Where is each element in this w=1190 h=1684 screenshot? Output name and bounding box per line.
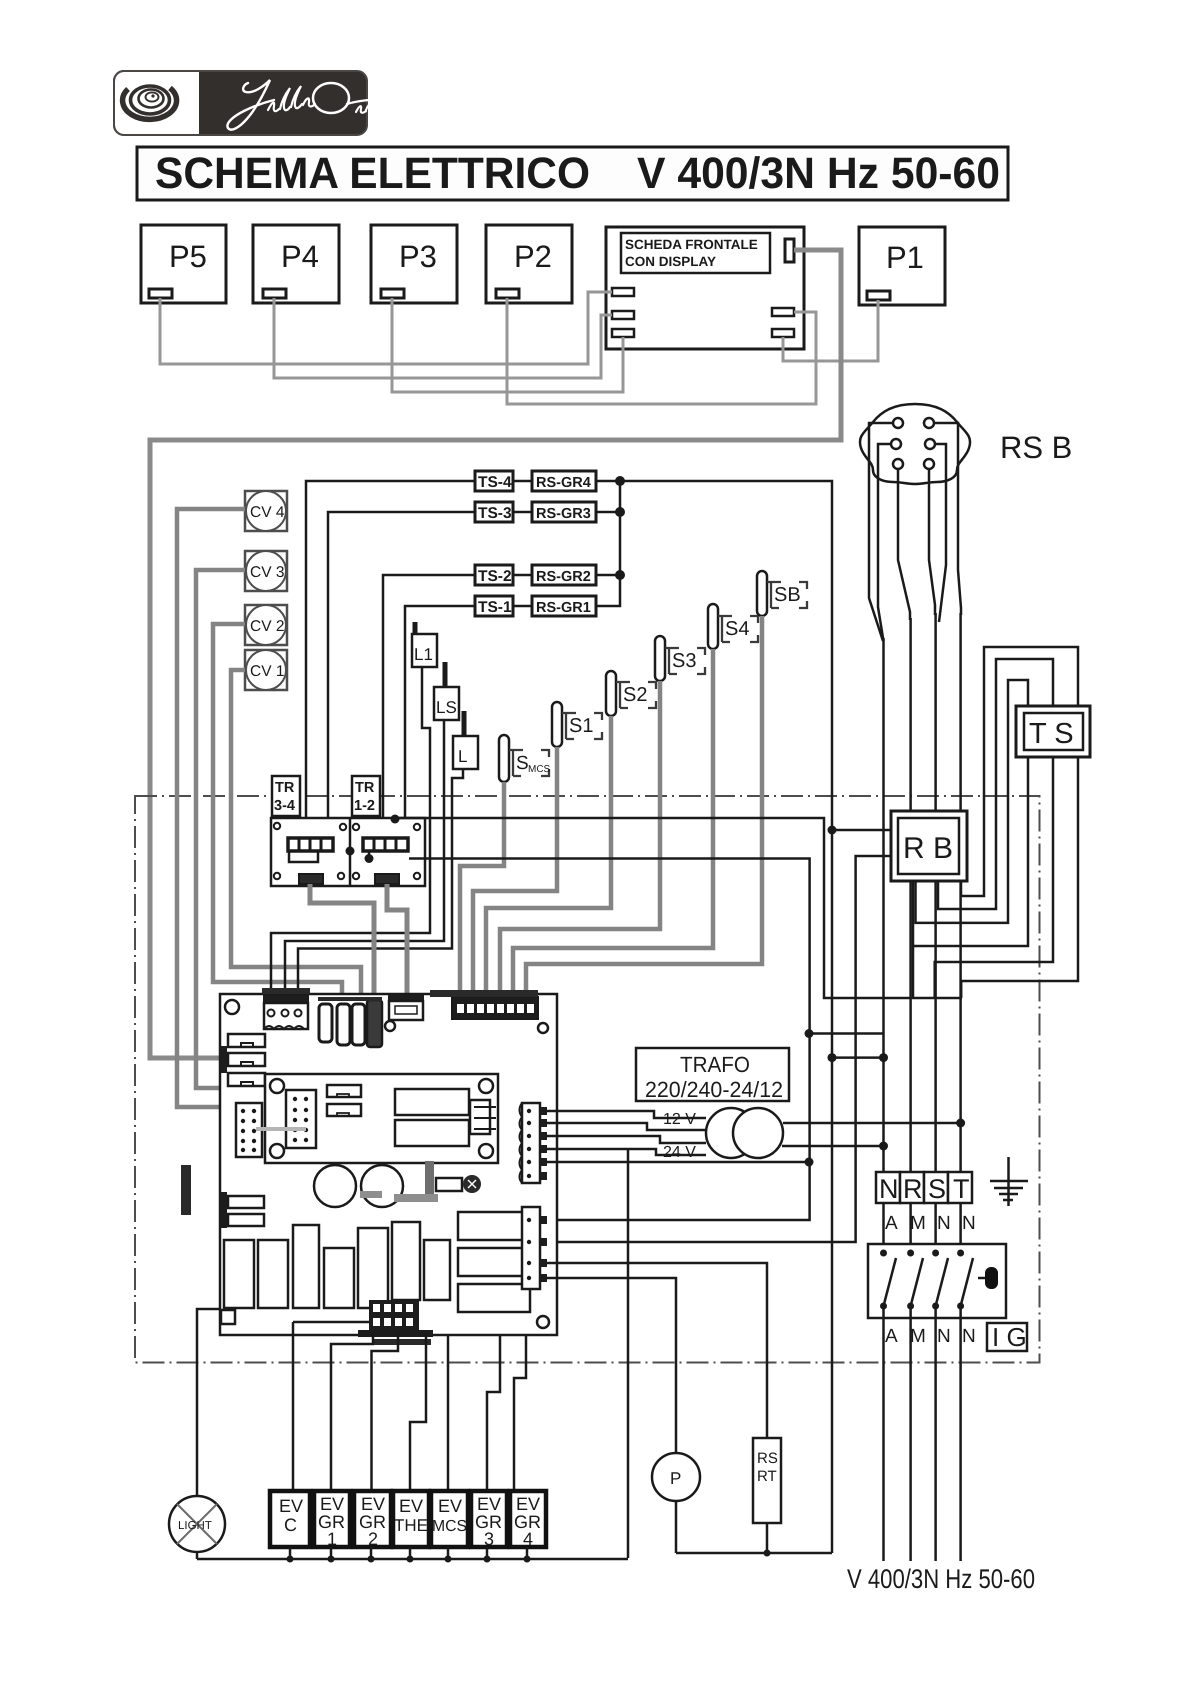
svg-text:24 V: 24 V	[663, 1144, 696, 1161]
thermostat TS-3	[475, 502, 513, 522]
wire RS RT to bus	[766, 1523, 769, 1553]
wire TS-3 left to relay board	[328, 512, 475, 839]
relay board divider	[349, 818, 352, 886]
module pin header	[286, 1090, 316, 1148]
board aux wire to right column	[545, 1161, 809, 1164]
wire EV C drop	[292, 1322, 295, 1491]
svg-text:RS-GR3: RS-GR3	[536, 506, 591, 522]
svg-text:3: 3	[484, 1529, 494, 1549]
connector EXP labeled	[388, 995, 424, 1020]
transformer TRAFO symbol	[706, 1108, 756, 1158]
svg-text:A: A	[885, 1213, 898, 1234]
wire LS to board connector	[285, 720, 444, 1006]
svg-text:TRAFO: TRAFO	[680, 1052, 750, 1077]
svg-text:T S: T S	[1029, 718, 1074, 750]
module relays	[395, 1089, 469, 1115]
wire RS RT from board	[545, 1263, 767, 1438]
wire S3 to board	[500, 681, 660, 999]
wire TS-2 left to relay board	[383, 575, 475, 839]
svg-text:EV: EV	[516, 1494, 540, 1514]
node TS bus junction 3	[615, 570, 625, 580]
main switch IG box	[868, 1244, 1006, 1318]
svg-text:TR: TR	[275, 780, 295, 796]
label box I G	[987, 1322, 1027, 1352]
relay TR1-2 output tab	[375, 874, 399, 884]
title box SCHEMA ELETTRICO	[137, 147, 1008, 200]
wire TS-2 to RS-GR2	[513, 574, 532, 577]
terminal block R	[900, 1172, 924, 1204]
svg-text:V 400/3N Hz 50-60: V 400/3N Hz 50-60	[637, 149, 1000, 198]
heater resistor RS-GR1	[532, 596, 596, 616]
switch S4	[708, 604, 758, 649]
connector right edge upper	[520, 1103, 548, 1183]
volumetric counter CV 2	[245, 605, 287, 645]
wire RB left pin to TS bus	[832, 829, 891, 832]
header EV bottom	[358, 1300, 433, 1337]
EV common bus	[197, 1558, 628, 1561]
svg-text:R: R	[903, 1174, 923, 1204]
IG actuator blob	[985, 1267, 998, 1289]
display board connector top-right	[785, 239, 794, 262]
pushbutton P1	[859, 227, 945, 305]
svg-text:CV 4: CV 4	[250, 504, 285, 521]
svg-text:MCS: MCS	[528, 764, 551, 775]
svg-text:CV 3: CV 3	[250, 564, 284, 581]
safety thermostat box T S	[1016, 706, 1090, 757]
svg-text:N: N	[962, 1326, 976, 1347]
svg-text:EV: EV	[477, 1494, 501, 1514]
bus wire relay to board row1	[409, 859, 810, 1221]
svg-text:EV: EV	[279, 1496, 303, 1516]
pump P	[652, 1453, 700, 1501]
switch output wires	[884, 1306, 961, 1561]
heater resistor RS RT	[753, 1438, 781, 1523]
wire TS-3 to RS-GR3	[513, 511, 532, 514]
connector slot 3	[352, 1004, 365, 1045]
transformer primary wire 24V a	[545, 1136, 706, 1143]
svg-text:P3: P3	[399, 239, 437, 274]
EV common bus riser	[627, 1149, 630, 1558]
label box TRAFO	[636, 1048, 789, 1102]
svg-text:M: M	[910, 1213, 926, 1234]
connector slot 4 dark	[367, 1000, 382, 1047]
wire EV GR3 from board	[487, 1335, 500, 1491]
pump RS-RT bottom bus	[676, 1552, 832, 1555]
group thermostat bus vertical	[597, 481, 620, 606]
connector RS B body	[860, 404, 970, 484]
label TR 3-4	[272, 776, 300, 816]
main control board outline	[220, 994, 557, 1335]
IG switch pole 4	[957, 1250, 973, 1310]
svg-text:220/240-24/12: 220/240-24/12	[645, 1077, 783, 1102]
wire P2 to display board	[507, 298, 816, 404]
svg-text:THE: THE	[394, 1516, 428, 1535]
logo Dalla Corte	[114, 71, 411, 135]
connector WR-GR 3pin	[263, 995, 309, 1029]
logo script DallaCorte	[227, 80, 411, 130]
wire SB to board	[526, 616, 762, 999]
link wire column N to board column	[809, 1032, 884, 1035]
wire TS bus to RB column	[620, 481, 832, 1553]
node link right	[879, 1053, 888, 1062]
svg-text:N: N	[937, 1326, 951, 1347]
volumetric counter CV 1	[245, 650, 287, 690]
display board connector right row1	[772, 308, 794, 316]
level regulator box R B	[891, 811, 967, 881]
node TS bus junction 1	[615, 476, 625, 486]
wire RS B pin BL	[898, 464, 910, 620]
wire EV GR4 from board	[514, 1335, 526, 1491]
wire light from board	[197, 1309, 221, 1496]
secondary 12V wire to column T	[783, 1122, 961, 1125]
terminal block S	[924, 1172, 948, 1204]
volumetric counter CV 4	[245, 491, 287, 531]
header JP left	[236, 1103, 262, 1157]
link wire TS bus to column N	[832, 1056, 884, 1059]
pushbutton P4	[253, 225, 339, 303]
svg-text:LIGHT: LIGHT	[178, 1520, 212, 1532]
wire P3 to display board	[392, 298, 623, 392]
pushbutton P2	[486, 225, 572, 303]
wire RS B pin ML	[878, 444, 896, 641]
transformer primary wire 12V b	[545, 1123, 706, 1130]
svg-text:4: 4	[523, 1529, 533, 1549]
level probe L1	[412, 622, 437, 667]
svg-text:EV: EV	[320, 1494, 344, 1514]
wire RS-GR2 to bus	[597, 574, 620, 577]
wire light to common bus	[196, 1552, 199, 1559]
connector slot 1	[319, 1004, 332, 1042]
svg-text:SB: SB	[774, 584, 801, 606]
display board connector left row3	[612, 329, 634, 337]
svg-text:RS-GR2: RS-GR2	[536, 569, 591, 585]
wire P4 to display board	[274, 298, 612, 378]
wire RB lower pin down to board row2	[545, 856, 891, 1242]
svg-text:S1: S1	[569, 715, 593, 737]
node relay tap on 858 bus	[365, 854, 374, 863]
svg-text:N: N	[879, 1174, 899, 1204]
wire pump to bottom bus	[675, 1501, 678, 1553]
svg-text:S4: S4	[725, 618, 749, 640]
wire CV2 to board connector	[213, 624, 342, 1006]
stub relay to bus 858	[368, 851, 371, 859]
display board SCHEDA FRONTALE CON DISPLAY	[606, 227, 804, 349]
heater resistor RS-GR2	[532, 565, 596, 585]
phase bus wire from relay to right column	[395, 818, 962, 998]
wire S4 to board	[513, 649, 713, 999]
svg-text:1: 1	[327, 1529, 337, 1549]
wire TS-1 left to relay board	[405, 606, 475, 839]
logo spiral mark	[123, 86, 177, 119]
wire TS-4 left to relay board	[306, 481, 475, 839]
valve EV GR 4	[510, 1491, 546, 1549]
svg-text:TS-3: TS-3	[478, 505, 512, 522]
svg-text:CV 2: CV 2	[250, 618, 284, 635]
wire S1 to board	[473, 747, 557, 999]
svg-text:EV: EV	[399, 1496, 423, 1516]
wire RB to TS loop outer	[961, 647, 1078, 998]
node TS bus junction 2	[615, 507, 625, 517]
svg-text:S: S	[928, 1174, 946, 1204]
relay TR1-2 terminal bar	[363, 838, 408, 851]
svg-text:SCHEMA ELETTRICO: SCHEMA ELETTRICO	[155, 149, 590, 198]
supply column N from RS B	[882, 638, 885, 1172]
svg-text:CV 1: CV 1	[250, 663, 284, 680]
wire P1 to display board	[783, 300, 878, 361]
svg-text:LS: LS	[436, 698, 457, 717]
svg-text:P2: P2	[514, 239, 552, 274]
relay bank right	[458, 1212, 530, 1312]
light pickup connector on left edge	[221, 1310, 235, 1324]
heater resistor RS-GR4	[532, 471, 596, 491]
svg-text:RS B: RS B	[1000, 430, 1072, 465]
svg-text:I G: I G	[992, 1322, 1027, 1352]
node link on board column	[805, 1029, 814, 1038]
small parts left	[228, 1196, 264, 1226]
transformer primary wire 24V b	[545, 1149, 706, 1155]
wire RB to TS loop middle	[935, 659, 1053, 998]
wire module link gray	[256, 1127, 306, 1131]
machine chassis dash-dot boundary	[135, 796, 1040, 1363]
label strip outside board	[181, 1165, 191, 1215]
svg-text:S3: S3	[672, 650, 696, 672]
label TR 1-2	[352, 776, 380, 816]
svg-text:N: N	[962, 1213, 976, 1234]
valve EV GR 1	[314, 1491, 350, 1549]
svg-text:CON DISPLAY: CON DISPLAY	[625, 254, 716, 269]
wire EV THE from header	[410, 1333, 426, 1491]
terminal to switch wires	[884, 1203, 961, 1253]
svg-text:RS-GR4: RS-GR4	[536, 475, 591, 491]
svg-text:2: 2	[368, 1529, 378, 1549]
node relay divider tap	[346, 847, 355, 856]
wire RS B pin TR	[929, 423, 961, 615]
svg-text:L1: L1	[414, 645, 433, 664]
display board connector right row2	[772, 329, 794, 337]
volumetric counter CV 3	[245, 551, 287, 591]
capacitor circle 2	[361, 1165, 403, 1207]
svg-text:R B: R B	[903, 832, 953, 865]
svg-text:EV: EV	[361, 1494, 385, 1514]
pushbutton P5	[141, 225, 226, 303]
wire pump P from board	[545, 1278, 676, 1453]
wire EV C from header	[331, 1333, 373, 1491]
svg-text:N: N	[937, 1213, 951, 1234]
wire TS-4 to RS-GR4	[513, 480, 532, 483]
wire TS box bottom leg	[913, 757, 1028, 946]
valve EV THE	[393, 1491, 429, 1547]
wire RS B pin MR	[930, 444, 946, 622]
node link left	[828, 1053, 837, 1062]
power device TO220	[425, 1161, 481, 1197]
svg-text:RS-GR1: RS-GR1	[536, 600, 591, 616]
terminal block T	[948, 1172, 972, 1204]
svg-text:TR: TR	[355, 780, 375, 796]
microswitch S MCS	[499, 735, 551, 782]
RS B pin wires down	[869, 423, 961, 641]
node relay phase tap	[391, 815, 400, 824]
node 12V on column T	[956, 1119, 965, 1128]
module side connector	[470, 1100, 490, 1134]
svg-text:TS-4: TS-4	[478, 474, 512, 491]
IG switch pole 2	[907, 1250, 923, 1310]
svg-text:3-4: 3-4	[274, 798, 295, 814]
thermostat TS-2	[475, 565, 513, 585]
svg-text:EV: EV	[438, 1496, 462, 1516]
wire TS-1 to RS-GR1	[513, 605, 532, 608]
terminal block N	[876, 1172, 900, 1204]
switch S2	[606, 671, 656, 716]
wire RS B pin TL	[869, 423, 898, 641]
connector left edge row2	[228, 1053, 265, 1066]
IG switch pole 3	[932, 1250, 948, 1310]
svg-text:TS-2: TS-2	[478, 568, 512, 585]
svg-text:M: M	[910, 1326, 926, 1347]
transformer primary wire 12V a	[545, 1111, 706, 1118]
node RB tap on TS bus	[828, 826, 837, 835]
wire S MCS to board	[460, 782, 504, 999]
svg-text:A: A	[885, 1326, 898, 1347]
valve EV C	[270, 1491, 310, 1547]
switch S1	[552, 702, 602, 747]
capacitor circle 1	[314, 1165, 356, 1207]
secondary 24V wire to column N	[782, 1145, 884, 1148]
display board connector left row1	[612, 288, 634, 296]
wire CV4 to board connector	[177, 509, 270, 1107]
lamp LIGHT	[169, 1496, 225, 1552]
supply column S from RS B	[934, 613, 937, 1172]
supply column T from RS B	[959, 613, 962, 1172]
svg-text:TS-1: TS-1	[478, 599, 512, 616]
svg-text:MCS: MCS	[432, 1518, 467, 1535]
svg-text:P: P	[670, 1469, 681, 1488]
wire L1 to board connector	[271, 667, 430, 1006]
svg-text:V 400/3N Hz 50-60: V 400/3N Hz 50-60	[847, 1564, 1035, 1594]
valve EV MCS	[431, 1491, 468, 1547]
label smudges connectors	[262, 988, 538, 1345]
svg-text:RT: RT	[757, 1468, 777, 1485]
level probe LS	[434, 662, 459, 720]
svg-text:P4: P4	[281, 239, 319, 274]
wire relay TR3-4 output to board	[310, 884, 374, 1002]
svg-text:L: L	[458, 747, 467, 766]
wire P5 to display board	[160, 292, 612, 364]
valve EV GR 3	[471, 1491, 507, 1549]
EV bottom stubs and nodes	[290, 1547, 527, 1559]
display flat cable to main board	[150, 250, 841, 1058]
wire RB pin down to phase bus	[912, 881, 915, 998]
wire CV3 to board connector	[196, 570, 264, 1088]
wire EV MCS drop	[447, 1335, 450, 1491]
relay board screws	[274, 823, 420, 879]
connector slot 2	[337, 1004, 350, 1045]
connector left edge row3	[228, 1073, 265, 1086]
switch SB	[757, 571, 807, 616]
svg-text:SCHEDA FRONTALE: SCHEDA FRONTALE	[625, 237, 758, 252]
wire RB pin to TS loop inner	[916, 680, 1029, 923]
node RS RT on bus	[764, 1550, 771, 1557]
earth ground symbol	[990, 1157, 1028, 1206]
switch S3	[655, 636, 705, 681]
display daughter module	[265, 1074, 498, 1163]
left edge connector block	[219, 1046, 227, 1073]
wire relay TR1-2 output to board	[387, 884, 407, 1002]
thermostat TS-4	[475, 471, 513, 491]
relay board outline	[271, 818, 425, 886]
svg-text:P1: P1	[886, 240, 924, 275]
wire EV GR2 from header	[372, 1333, 399, 1491]
pushbutton P3	[371, 225, 457, 303]
svg-text:P5: P5	[169, 239, 207, 274]
svg-text:S: S	[516, 753, 529, 774]
supply column R from RS B	[909, 618, 912, 1172]
IG switch pole 1	[880, 1250, 896, 1310]
heater resistor RS-GR3	[532, 502, 596, 522]
connector left edge row1	[228, 1034, 265, 1047]
module slots	[327, 1085, 361, 1116]
wire L to board connector	[298, 769, 463, 1006]
svg-text:1-2: 1-2	[354, 798, 375, 814]
node aux on column	[805, 1158, 814, 1167]
node 24V on column N	[879, 1142, 888, 1151]
wire CV1 to board connector	[231, 670, 361, 1006]
connector sensors block	[452, 997, 538, 1019]
svg-text:T: T	[953, 1174, 970, 1204]
relay bank left	[224, 1222, 450, 1308]
RS B pins	[891, 418, 935, 469]
wire RS-GR3 to bus	[597, 511, 620, 514]
svg-text:S2: S2	[623, 684, 647, 706]
display board connector left row2	[612, 311, 634, 319]
thermostat TS-1	[475, 596, 513, 616]
svg-text:RS: RS	[757, 1450, 778, 1467]
wire hole to header	[293, 1321, 369, 1324]
board mounting holes	[225, 1000, 549, 1328]
wire S2 to board	[486, 716, 611, 999]
gray jumper mid board	[394, 1194, 438, 1202]
relay TR3-4 output tab	[299, 874, 323, 884]
svg-text:12 V: 12 V	[663, 1111, 696, 1128]
connector right edge lower	[522, 1207, 547, 1289]
svg-text:C: C	[284, 1515, 297, 1535]
valve EV GR 2	[354, 1491, 391, 1549]
wire RS B pin BR	[929, 464, 935, 615]
relay TR3-4 terminal bar	[288, 838, 333, 862]
level probe L	[453, 711, 478, 769]
